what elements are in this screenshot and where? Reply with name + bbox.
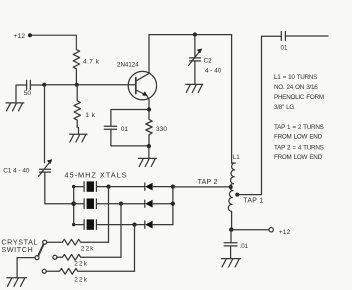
- ground under 1k: [70, 128, 87, 143]
- diode D2: [121, 200, 173, 208]
- svg-text:PHENOLIC FORM: PHENOLIC FORM: [274, 94, 324, 101]
- svg-text:SWITCH: SWITCH: [1, 245, 33, 254]
- switch S1 pole: [35, 256, 39, 260]
- svg-text:.01: .01: [240, 243, 249, 250]
- svg-text:330: 330: [156, 126, 167, 133]
- svg-text:01: 01: [281, 45, 288, 52]
- wire Y3 junction down to R6: [134, 225, 136, 272]
- node base-bias junction: [75, 83, 79, 87]
- resistor R6 22k (bottom): [42, 268, 134, 274]
- svg-text:3/8" LG: 3/8" LG: [274, 104, 294, 111]
- capacitor C50 plates: [27, 80, 31, 89]
- ground under cap 50: [6, 103, 24, 111]
- svg-text:·TAP 2: ·TAP 2: [195, 179, 218, 186]
- wire crystal left bus: [73, 187, 75, 225]
- capacitor C .01 bypass (bottom right): [224, 230, 237, 259]
- note text block L1 winding: [274, 74, 324, 161]
- node crystal bus top: [72, 185, 75, 188]
- wire cap50 left lead to ground: [16, 85, 27, 103]
- wire emitter bypass loop: [111, 110, 149, 146]
- wire L1 bottom to +12 terminal: [231, 229, 269, 231]
- ground under .01 cap: [222, 259, 241, 267]
- svg-text:NO. 24 ON 3/16: NO. 24 ON 3/16: [274, 84, 318, 91]
- node 330 bottom junction: [147, 144, 151, 148]
- node TAP2 on coil: [229, 185, 233, 189]
- crystal Y3: [74, 219, 135, 229]
- crystal Y2: [74, 199, 121, 209]
- node +12 supply terminal (top left): [28, 33, 32, 37]
- wire output cap left lead: [262, 35, 282, 37]
- ground under C2: [186, 84, 203, 92]
- node bottom of L1: [229, 227, 233, 231]
- node diode bus middle: [171, 202, 175, 206]
- node diode bus top: [171, 185, 175, 189]
- wire 4.7k bottom to base node: [75, 69, 77, 85]
- wire diode cathode bus: [172, 187, 174, 225]
- diode D1: [109, 183, 173, 191]
- wire L1 bottom lead: [231, 212, 233, 230]
- node Y1/D1 junction: [106, 185, 110, 189]
- svg-text:L1 = 10 TURNS: L1 = 10 TURNS: [274, 74, 317, 81]
- svg-text:1 k: 1 k: [85, 112, 95, 119]
- wire output cap right lead: [285, 35, 328, 37]
- node junction C1 branch: [42, 83, 46, 87]
- resistor R2 1k: [74, 85, 80, 128]
- svg-text:2N4124: 2N4124: [117, 62, 139, 69]
- svg-text:FROM LOW END: FROM LOW END: [274, 154, 323, 161]
- resistor R5 22k (middle): [53, 254, 121, 260]
- node Y2/D2 junction: [119, 202, 123, 206]
- svg-text:45-MHZ XTALS: 45-MHZ XTALS: [65, 171, 128, 180]
- svg-text:L1: L1: [233, 154, 240, 161]
- svg-text:+12: +12: [14, 33, 26, 40]
- wire +12 terminal to 4.7k top: [32, 35, 76, 49]
- svg-text:22k: 22k: [74, 276, 88, 283]
- svg-text:22k: 22k: [81, 246, 95, 253]
- svg-text:4.7 k: 4.7 k: [83, 58, 100, 65]
- wire Y1 junction down to R4: [108, 187, 110, 243]
- svg-text:50: 50: [24, 90, 32, 97]
- svg-text:TAP 2 = 4 TURNS: TAP 2 = 4 TURNS: [274, 144, 324, 151]
- wire Y2 junction down to R5: [120, 204, 122, 257]
- svg-text:4 - 40: 4 - 40: [205, 67, 222, 74]
- wire cap50 right lead to node: [30, 84, 44, 86]
- capacitor output 01 plates: [281, 32, 285, 41]
- svg-text:+12: +12: [279, 229, 291, 236]
- wire C1 to crystal bus: [45, 172, 74, 203]
- wire TAP1 to output coupling cap: [237, 36, 261, 194]
- capacitor 01 emitter bypass plates: [104, 126, 116, 129]
- wire to ground under 330: [148, 146, 150, 158]
- diode D3: [135, 221, 173, 229]
- svg-text:C2: C2: [204, 58, 213, 65]
- svg-text:22k: 22k: [74, 261, 88, 268]
- wire rail right corner down to L1: [231, 35, 233, 163]
- transistor Q1 2N4124: [128, 71, 156, 99]
- ground under 330: [139, 158, 157, 166]
- wire base wire to transistor: [44, 84, 136, 86]
- ground under switch: [7, 278, 27, 287]
- capacitor C1 4-40 (variable) plates: [40, 169, 51, 172]
- node C2 junction on rail: [193, 32, 197, 36]
- svg-text:01: 01: [121, 126, 129, 133]
- svg-text:TAP 1: TAP 1: [243, 198, 263, 205]
- wire switch pole to ground: [17, 258, 35, 278]
- wire TAP2 line from diode bus to coil: [173, 186, 231, 188]
- capacitor C2 4-40 (variable): [190, 35, 201, 85]
- resistor R4 22k (top): [43, 239, 109, 245]
- wire C1 branch down from base node: [44, 85, 46, 163]
- switch arm: [38, 244, 43, 256]
- svg-text:TAP 1 = 2 TURNS: TAP 1 = 2 TURNS: [274, 124, 324, 131]
- inductor L1 coil: [228, 163, 235, 211]
- node crystal bus bottom: [72, 223, 75, 226]
- node Y3/D3 junction: [132, 223, 136, 227]
- resistor R1 4.7k: [73, 50, 79, 69]
- node emitter junction: [147, 107, 151, 111]
- svg-text:C1 4 - 40: C1 4 - 40: [3, 168, 30, 175]
- crystal Y1: [74, 181, 109, 191]
- wire collector rail: [149, 34, 232, 36]
- svg-text:FROM LOW END: FROM LOW END: [274, 133, 323, 140]
- resistor R3 330: [146, 110, 152, 147]
- node +12 feed terminal (open circle): [269, 228, 273, 232]
- node TAP1 on coil: [235, 193, 239, 197]
- node crystal bus middle: [71, 201, 76, 206]
